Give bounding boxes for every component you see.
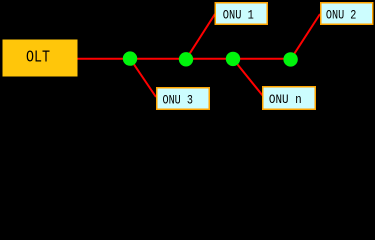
wire: node C to ONU n [233,59,263,96]
svg-text:ONU n: ONU n [269,93,302,107]
splitter node D [283,52,297,66]
ONU 1 box [215,3,267,25]
wire: node D to ONU 2 [291,14,320,59]
splitter node A [123,51,137,65]
wire: node A to ONU 3 [130,59,156,97]
splitter node B [179,52,193,66]
OLT box [3,40,78,77]
wire: node B to ONU 1 [186,14,215,59]
splitter node C [226,52,240,66]
ONU n box [263,87,316,110]
svg-text:OLT: OLT [26,48,50,67]
ONU 3 box [157,88,210,110]
svg-text:ONU 2: ONU 2 [326,8,357,22]
svg-text:ONU 1: ONU 1 [223,8,254,22]
wire: trunk fiber from OLT to node D [77,58,292,60]
ONU 2 box [321,3,373,25]
svg-text:ONU 3: ONU 3 [163,93,193,107]
